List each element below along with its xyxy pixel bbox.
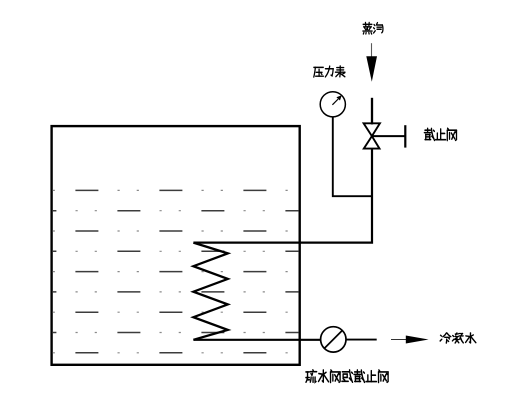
wire: pipe from valve down to coil: [193, 149, 372, 243]
pressure gauge: [320, 92, 345, 117]
heating coil (zigzag): [193, 243, 227, 340]
condensate flow arrow: [391, 336, 429, 344]
wire: trap outlet pipe: [346, 339, 377, 341]
wire: steam pipe above valve: [371, 98, 373, 125]
steam trap (circle with diagonal): [321, 327, 346, 352]
water level hatching: [53, 190, 299, 352]
label 压力表 (pressure gauge): [314, 66, 345, 77]
tank (water vessel): [52, 126, 300, 365]
label 冷凝水 (condensate): [440, 333, 476, 343]
steam arrow (inlet): [366, 43, 377, 82]
label 疏水阀或截止阀 (trap valve or stop valve): [306, 370, 388, 383]
wire: coil outlet to steam trap: [193, 339, 320, 341]
label 截止阀 (stop valve): [424, 128, 456, 140]
label 蒸汽 (steam): [363, 23, 383, 34]
stop valve (globe valve symbol): [364, 123, 406, 148]
wire: gauge branch pipe: [333, 117, 371, 196]
